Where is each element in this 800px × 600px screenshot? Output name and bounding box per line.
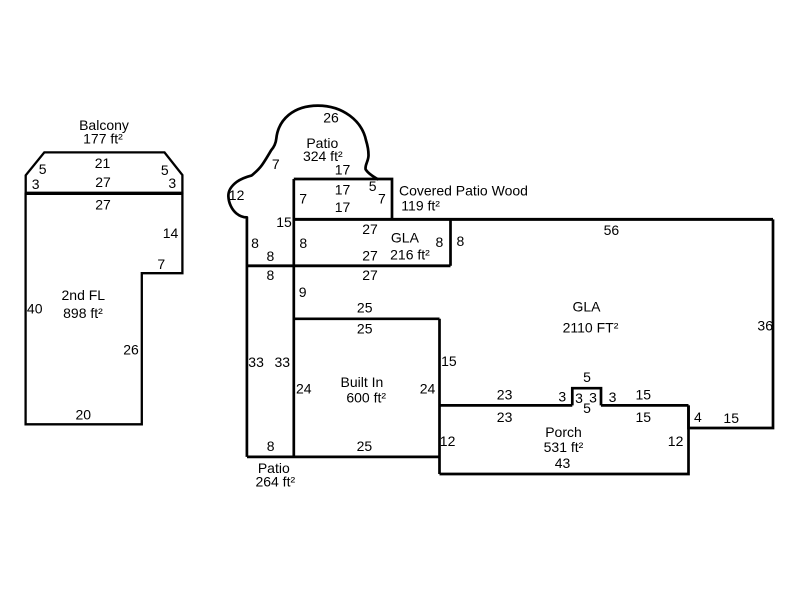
svg-text:15: 15 bbox=[636, 387, 652, 403]
svg-text:2nd FL: 2nd FL bbox=[62, 287, 106, 303]
svg-text:177 ft²: 177 ft² bbox=[83, 131, 123, 147]
svg-text:27: 27 bbox=[95, 197, 111, 213]
svg-text:26: 26 bbox=[323, 110, 339, 126]
svg-text:25: 25 bbox=[357, 300, 373, 316]
svg-text:23: 23 bbox=[497, 387, 513, 403]
svg-text:7: 7 bbox=[299, 191, 307, 207]
svg-text:27: 27 bbox=[362, 248, 378, 264]
svg-text:3: 3 bbox=[575, 390, 583, 406]
svg-text:3: 3 bbox=[32, 176, 40, 192]
svg-text:8: 8 bbox=[267, 248, 275, 264]
svg-text:8: 8 bbox=[457, 233, 465, 249]
svg-text:21: 21 bbox=[95, 155, 111, 171]
svg-text:33: 33 bbox=[275, 354, 291, 370]
svg-text:15: 15 bbox=[723, 410, 739, 426]
svg-text:56: 56 bbox=[604, 222, 620, 238]
svg-text:23: 23 bbox=[497, 409, 513, 425]
built-in right / porch left wall bbox=[438, 319, 441, 474]
bump on porch top bbox=[572, 388, 601, 405]
patio blob curve bbox=[228, 106, 378, 457]
svg-text:7: 7 bbox=[157, 256, 165, 272]
svg-text:43: 43 bbox=[555, 455, 571, 471]
svg-text:5: 5 bbox=[583, 369, 591, 385]
svg-text:24: 24 bbox=[420, 381, 436, 397]
GLA right wall and bottom-right bbox=[689, 219, 774, 428]
svg-text:600 ft²: 600 ft² bbox=[346, 390, 386, 406]
divider x=450.5 between GLA 216 and GLA 2110 bbox=[449, 219, 452, 265]
svg-text:27: 27 bbox=[362, 267, 378, 283]
svg-text:7: 7 bbox=[272, 156, 280, 172]
svg-text:5: 5 bbox=[39, 161, 47, 177]
porch right and bottom walls bbox=[440, 405, 689, 474]
svg-text:20: 20 bbox=[76, 407, 92, 423]
svg-text:GLA: GLA bbox=[572, 299, 601, 315]
svg-text:12: 12 bbox=[229, 187, 245, 203]
svg-text:40: 40 bbox=[27, 301, 43, 317]
svg-text:Porch: Porch bbox=[545, 424, 582, 440]
svg-text:14: 14 bbox=[163, 225, 179, 241]
svg-text:25: 25 bbox=[357, 438, 373, 454]
bottom wall y=457 bbox=[247, 456, 440, 459]
wall y=265.8 bbox=[247, 264, 451, 267]
svg-text:5: 5 bbox=[369, 178, 377, 194]
svg-text:7: 7 bbox=[378, 191, 386, 207]
svg-text:531 ft²: 531 ft² bbox=[544, 439, 584, 455]
svg-text:216 ft²: 216 ft² bbox=[390, 247, 430, 263]
svg-text:8: 8 bbox=[299, 235, 307, 251]
svg-text:264 ft²: 264 ft² bbox=[255, 474, 295, 490]
svg-text:24: 24 bbox=[296, 381, 312, 397]
built-in top wall bbox=[294, 317, 440, 320]
svg-text:15: 15 bbox=[276, 214, 292, 230]
covered patio wood rectangle bbox=[294, 179, 392, 219]
svg-text:36: 36 bbox=[757, 318, 773, 334]
svg-text:2110 FT²: 2110 FT² bbox=[563, 320, 619, 336]
long vertical wall x=294 bbox=[292, 179, 295, 457]
svg-text:27: 27 bbox=[362, 221, 378, 237]
GLA top wall y=219 bbox=[294, 218, 773, 221]
svg-text:4: 4 bbox=[694, 409, 702, 425]
svg-text:17: 17 bbox=[335, 199, 351, 215]
svg-text:15: 15 bbox=[441, 353, 457, 369]
svg-text:8: 8 bbox=[267, 438, 275, 454]
svg-text:GLA: GLA bbox=[391, 230, 420, 246]
svg-text:8: 8 bbox=[436, 234, 444, 250]
balcony outline bbox=[26, 152, 183, 192]
svg-text:17: 17 bbox=[335, 162, 351, 178]
svg-text:33: 33 bbox=[248, 354, 264, 370]
svg-text:3: 3 bbox=[609, 389, 617, 405]
svg-text:27: 27 bbox=[95, 174, 111, 190]
svg-text:Built In: Built In bbox=[340, 374, 383, 390]
svg-text:12: 12 bbox=[668, 433, 684, 449]
svg-text:3: 3 bbox=[168, 175, 176, 191]
svg-text:12: 12 bbox=[440, 433, 456, 449]
svg-text:119 ft²: 119 ft² bbox=[401, 198, 440, 214]
svg-text:25: 25 bbox=[357, 321, 373, 337]
svg-text:898 ft²: 898 ft² bbox=[63, 305, 103, 321]
svg-text:8: 8 bbox=[267, 267, 275, 283]
svg-text:17: 17 bbox=[335, 182, 351, 198]
svg-text:15: 15 bbox=[636, 409, 652, 425]
svg-text:5: 5 bbox=[583, 400, 591, 416]
svg-text:9: 9 bbox=[299, 284, 307, 300]
svg-text:3: 3 bbox=[558, 388, 566, 404]
svg-text:Covered Patio Wood: Covered Patio Wood bbox=[399, 183, 528, 199]
svg-text:26: 26 bbox=[123, 341, 139, 357]
porch top wall left part bbox=[440, 404, 573, 407]
porch top wall right part bbox=[601, 404, 689, 407]
svg-text:8: 8 bbox=[251, 235, 259, 251]
2nd FL outline bbox=[26, 194, 183, 424]
